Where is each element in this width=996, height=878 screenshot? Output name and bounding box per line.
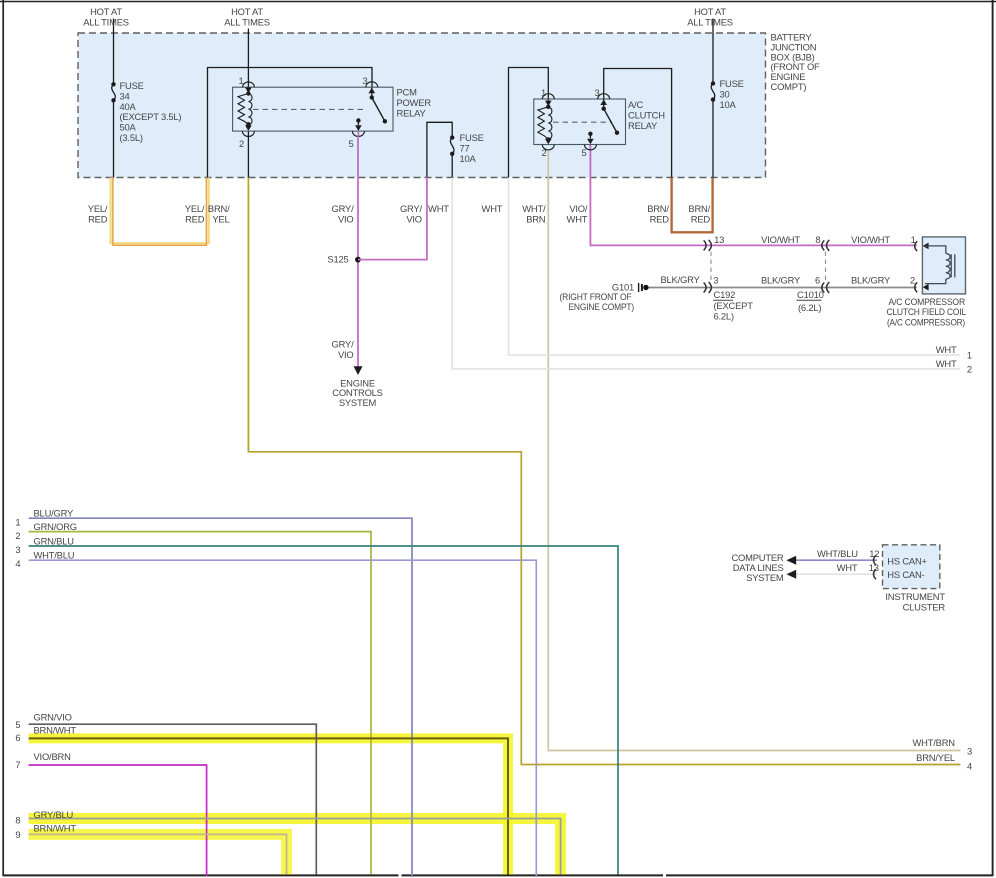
compressor field coil (925, 246, 955, 284)
A/C relay pin 3 arc (598, 94, 610, 99)
in-line connector C1010 pin 6 (male arcs) (822, 283, 825, 293)
svg-text:3: 3 (362, 75, 367, 86)
svg-text:CLUSTER: CLUSTER (903, 601, 946, 612)
PCM relay pin 1 arc (243, 82, 255, 87)
A/C relay linkage dashes (553, 121, 612, 123)
svg-text:2: 2 (541, 147, 546, 158)
page border left (2, 0, 4, 876)
svg-text:RED: RED (650, 214, 670, 225)
wire WHT from fuse 77 to right edge (2) (452, 178, 960, 369)
svg-text:HOT AT: HOT AT (231, 6, 263, 17)
svg-text:CLUTCH FIELD COIL: CLUTCH FIELD COIL (887, 306, 967, 317)
svg-text:9: 9 (15, 829, 20, 840)
in-line connector C1010 pin 8 (male arcs) (822, 240, 825, 250)
svg-text:RED: RED (691, 214, 711, 225)
svg-text:(3.5L): (3.5L) (120, 132, 143, 143)
PCM relay pin 2 arc (242, 131, 254, 136)
computer data lines arrow 2 (786, 570, 796, 579)
svg-text:RELAY: RELAY (628, 120, 658, 131)
svg-text:4: 4 (15, 558, 20, 569)
svg-text:2: 2 (910, 274, 915, 285)
wire 3 GRN/BLU (29, 546, 618, 875)
svg-text:ALL TIMES: ALL TIMES (83, 17, 129, 28)
wire: S125 riser to fuse 77 (inside BJB) (427, 122, 452, 177)
svg-text:GRY/: GRY/ (332, 203, 355, 214)
svg-text:4: 4 (967, 760, 972, 771)
wire BRN/YEL from PCM pin 2 down, across and to right edge (248, 178, 960, 765)
svg-text:10A: 10A (720, 99, 737, 110)
svg-text:A/C: A/C (628, 99, 643, 110)
highlighter band wire 8 GRY/BLU (29, 819, 561, 875)
svg-text:S125: S125 (327, 254, 348, 265)
svg-text:3: 3 (713, 275, 718, 286)
svg-text:GRN/VIO: GRN/VIO (34, 712, 72, 723)
svg-text:ALL TIMES: ALL TIMES (687, 17, 733, 28)
svg-text:BRN/: BRN/ (647, 203, 669, 214)
cluster pin 13 connector arc (874, 569, 877, 579)
wire WHT/BLU to cluster pin 12 (795, 559, 877, 561)
svg-text:HOT AT: HOT AT (90, 6, 122, 17)
wire: WHT feed up to A/C relay pin 1 (509, 68, 549, 178)
svg-text:30: 30 (720, 88, 730, 99)
arrow to engine controls system (354, 366, 363, 375)
svg-text:1: 1 (967, 350, 972, 361)
svg-text:VIO: VIO (338, 214, 354, 225)
wire: fuse 30 to BJB bottom (712, 100, 714, 178)
A/C relay pin 1 arrow (545, 101, 552, 107)
svg-text:5: 5 (581, 147, 586, 158)
compressor pin 1 connector arc (915, 241, 918, 251)
svg-text:RED: RED (185, 214, 205, 225)
svg-text:YEL/: YEL/ (88, 203, 108, 214)
wire: fuse 77 to BJB bottom (451, 154, 453, 178)
svg-text:BRN/WHT: BRN/WHT (34, 725, 77, 736)
PCM relay coil (zigzag + loops) (246, 91, 250, 95)
svg-text:13: 13 (714, 234, 724, 245)
A/C relay pin 5 contact and arrow (588, 132, 592, 136)
svg-text:2: 2 (967, 364, 972, 375)
fuse 34 (111, 82, 115, 102)
svg-text:1: 1 (911, 234, 916, 245)
page border right (992, 0, 994, 876)
A/C clutch relay U-box (534, 99, 626, 145)
wire WHT to cluster pin 13 (795, 573, 877, 575)
PCM power relay U-box (233, 87, 393, 131)
wire: PCM relay pin 2 to BJB bottom (247, 131, 249, 177)
svg-text:HOT AT: HOT AT (694, 6, 726, 17)
svg-text:FUSE: FUSE (120, 80, 144, 91)
svg-text:COMPT): COMPT) (771, 81, 807, 92)
svg-text:RED: RED (88, 214, 108, 225)
compressor pin 2 connector arc (915, 282, 918, 292)
svg-text:GRN/ORG: GRN/ORG (34, 521, 77, 532)
page border bottom (with gaps) (3, 874, 399, 876)
in-line connector C192 pin 13 (female arcs) (704, 240, 707, 250)
wire WHT from A/C relay pin 1 branch to right edge (1) (509, 178, 960, 356)
PCM relay pin 2 arrow (245, 125, 252, 131)
svg-text:PCM: PCM (397, 87, 418, 98)
svg-text:(A/C COMPRESSOR): (A/C COMPRESSOR) (887, 317, 965, 328)
highlighter band wire 9 BRN/WHT (29, 834, 287, 874)
svg-text:BLK/GRY: BLK/GRY (761, 274, 801, 285)
svg-text:40A: 40A (120, 101, 137, 112)
svg-text:5: 5 (348, 138, 353, 149)
svg-text:WHT/BLU: WHT/BLU (34, 550, 75, 561)
svg-text:GRY/: GRY/ (400, 203, 423, 214)
svg-text:(EXCEPT: (EXCEPT (714, 300, 754, 311)
svg-text:ENGINE COMPT): ENGINE COMPT) (569, 301, 635, 312)
compressor pin 1 arrow (923, 243, 929, 250)
svg-text:WHT/BLU: WHT/BLU (817, 548, 858, 559)
PCM relay pin 5 contact and arrow (356, 118, 360, 122)
connector dashed link C1010 (825, 252, 827, 283)
svg-text:ALL TIMES: ALL TIMES (224, 17, 270, 28)
svg-text:YEL/: YEL/ (185, 203, 205, 214)
svg-text:FUSE: FUSE (460, 132, 484, 143)
svg-text:5: 5 (15, 719, 20, 730)
instrument cluster box (883, 545, 940, 589)
page border top (0, 1, 996, 3)
compressor pin 2 arrow (923, 284, 929, 291)
wire VIO/WHT from A/C relay pin 5 to compressor pin 1 (590, 145, 916, 246)
svg-text:1: 1 (15, 516, 20, 527)
svg-text:6: 6 (815, 274, 820, 285)
wire 1 BLU/GRY (29, 518, 412, 877)
wire 2 GRN/ORG (29, 532, 371, 875)
svg-text:(EXCEPT 3.5L): (EXCEPT 3.5L) (120, 111, 182, 122)
fuse 30 (711, 81, 715, 102)
svg-text:CLUTCH: CLUTCH (628, 110, 665, 121)
svg-text:WHT: WHT (428, 203, 449, 214)
wire BRN/RED loop below BJB (672, 178, 713, 233)
svg-text:10A: 10A (460, 153, 477, 164)
svg-text:VIO/: VIO/ (569, 203, 588, 214)
PCM relay pin 1 arrow (245, 87, 252, 93)
svg-text:WHT: WHT (837, 562, 858, 573)
svg-text:BLK/GRY: BLK/GRY (660, 274, 700, 285)
svg-text:BRN/: BRN/ (208, 203, 230, 214)
highlighter band wire 6 BRN/WHT (29, 738, 508, 874)
svg-text:VIO/BRN: VIO/BRN (34, 751, 71, 762)
connector dashed link C192 (710, 252, 712, 283)
wire 7 VIO/BRN (29, 765, 207, 876)
svg-text:BRN: BRN (526, 214, 545, 225)
svg-text:BLU/GRY: BLU/GRY (34, 508, 75, 519)
A/C compressor clutch field coil box (922, 237, 965, 294)
wire: A/C relay pin 3 up and over to BRN/RED drop (604, 69, 672, 178)
wire BLK/GRY from G101 to compressor pin 2 (646, 287, 917, 289)
svg-text:BRN/YEL: BRN/YEL (916, 752, 955, 763)
wire: pin 3 into relay (arrow up) (371, 87, 373, 97)
in-line connector C192 pin 3 (female arcs) (704, 283, 707, 293)
svg-text:50A: 50A (120, 122, 137, 133)
svg-text:(6.2L): (6.2L) (798, 302, 821, 313)
battery junction box (BJB) (78, 33, 766, 178)
svg-text:34: 34 (120, 90, 130, 101)
svg-text:8: 8 (15, 814, 20, 825)
A/C relay pin 3 arrow (up) (600, 99, 607, 105)
wire YEL/RED loop (yellow half) (111, 178, 209, 244)
svg-text:1: 1 (238, 75, 243, 86)
svg-text:8: 8 (815, 234, 820, 245)
A/C relay pin 1 arc (542, 94, 554, 99)
svg-text:HS CAN+: HS CAN+ (887, 556, 927, 567)
svg-text:WHT/BRN: WHT/BRN (913, 737, 955, 748)
svg-text:GRY/BLU: GRY/BLU (34, 809, 74, 820)
svg-text:FUSE: FUSE (720, 78, 744, 89)
svg-text:2: 2 (15, 530, 20, 541)
svg-text:GRN/BLU: GRN/BLU (34, 535, 75, 546)
fuse 77 (450, 135, 454, 156)
svg-text:BLK/GRY: BLK/GRY (851, 274, 891, 285)
wire 9 BRN/WHT core (29, 834, 287, 874)
svg-text:WHT/: WHT/ (522, 203, 546, 214)
svg-text:SYSTEM: SYSTEM (339, 397, 377, 408)
svg-text:1: 1 (541, 87, 546, 98)
wire GRY/VIO from S125 to fuse 77 riser (358, 177, 427, 260)
svg-text:6.2L): 6.2L) (714, 311, 734, 322)
A/C relay coil (zigzag + loops) (546, 105, 550, 109)
svg-text:C192: C192 (714, 289, 736, 300)
svg-text:SYSTEM: SYSTEM (746, 572, 784, 583)
svg-text:WHT: WHT (936, 344, 957, 355)
A/C relay switch blade (602, 107, 606, 111)
svg-text:WHT: WHT (936, 358, 957, 369)
wire: YEL/RED loop up to PCM relay pin 3 (208, 68, 373, 178)
svg-text:3: 3 (967, 745, 972, 756)
svg-text:GRY/: GRY/ (332, 339, 355, 350)
PCM relay linkage dashes (253, 108, 366, 110)
svg-text:3: 3 (594, 87, 599, 98)
svg-text:VIO: VIO (406, 214, 422, 225)
wire 6 BRN/WHT core (29, 738, 508, 874)
A/C relay pin 5 arc (584, 145, 596, 150)
PCM relay pin 3 arc (366, 82, 378, 87)
svg-text:C1010: C1010 (797, 289, 824, 300)
svg-text:VIO: VIO (338, 349, 354, 360)
svg-text:77: 77 (460, 142, 470, 153)
svg-text:BRN/WHT: BRN/WHT (34, 822, 77, 833)
svg-text:12: 12 (869, 548, 879, 559)
svg-text:RELAY: RELAY (397, 108, 427, 119)
wire 4 WHT/BLU (29, 560, 537, 877)
svg-text:VIO/WHT: VIO/WHT (851, 234, 890, 245)
svg-text:HS CAN-: HS CAN- (887, 569, 924, 580)
svg-text:3: 3 (15, 544, 20, 555)
svg-text:WHT: WHT (482, 203, 503, 214)
PCM relay pin 5 arc (352, 131, 364, 136)
wire: HOT2 feed down to PCM relay pin 1 (247, 29, 249, 94)
A/C relay pin 2 arrow (545, 139, 552, 145)
wire: HOT3 feed down to fuse 30 (712, 19, 714, 84)
wire WHT/BRN from A/C relay pin 2 down and to right edge (548, 151, 960, 751)
PCM relay switch blade (370, 95, 374, 99)
svg-text:WHT: WHT (567, 214, 588, 225)
svg-text:13: 13 (869, 562, 879, 573)
splice S125 (355, 257, 361, 263)
computer data lines arrow 1 (786, 556, 796, 565)
wire GRY/VIO from PCM pin 5 down to S125 and engine controls arrow (357, 138, 359, 367)
wire: HOT1 feed down to fuse 34 (113, 19, 115, 85)
wire 8 GRY/BLU core (29, 819, 561, 875)
ground G101 (639, 283, 649, 292)
wire YEL/RED loop (red half) (113, 178, 206, 246)
A/C relay pin 2 arc (542, 145, 554, 150)
svg-text:POWER: POWER (397, 97, 432, 108)
cluster pin 12 connector arc (874, 555, 877, 565)
svg-text:7: 7 (15, 759, 20, 770)
svg-text:YEL: YEL (212, 214, 229, 225)
svg-text:2: 2 (239, 138, 244, 149)
svg-text:VIO/WHT: VIO/WHT (761, 234, 800, 245)
svg-text:6: 6 (15, 732, 20, 743)
wire 5 GRN/VIO (29, 724, 317, 874)
wire: GRY/VIO inside pin5 arc (357, 131, 359, 138)
wire: fuse 34 to BJB bottom (113, 100, 115, 177)
svg-text:BRN/: BRN/ (688, 203, 710, 214)
PCM relay pin 3 arrow (up) (369, 88, 376, 94)
